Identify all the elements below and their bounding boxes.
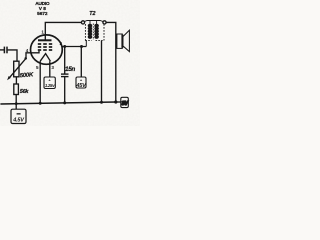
- svg-text:3V: 3V: [121, 101, 128, 107]
- transformer T2 terminal left: [81, 21, 84, 24]
- capacitor C1 input: [4, 47, 7, 54]
- node junction dot speaker bus: [114, 100, 117, 103]
- transformer T2 secondary winding: [95, 24, 99, 38]
- wire ground bus: [0, 102, 115, 104]
- wire input lead left: [0, 49, 4, 51]
- wire filament pin 5 to bus: [39, 61, 41, 103]
- transformer T2 bottom dashed lead: [85, 40, 91, 42]
- speaker LS1 cone: [123, 30, 129, 51]
- battery B1 1.25V box: [44, 77, 55, 89]
- battery B3 4.5V box: [11, 109, 26, 123]
- svg-text:15n: 15n: [65, 66, 75, 73]
- tube V1 5672 envelope: [31, 35, 63, 64]
- svg-text:56k: 56k: [20, 89, 30, 95]
- svg-text:1.25v: 1.25v: [45, 83, 55, 88]
- transformer T2 terminal right: [103, 21, 106, 24]
- node junction dot cap bus: [63, 101, 66, 104]
- svg-text:45V: 45V: [75, 83, 87, 89]
- wire grid internal lead: [31, 51, 39, 53]
- transformer T2 primary winding: [88, 24, 92, 38]
- title text AUDIO V8 5672: [35, 1, 50, 17]
- node junction dot secondary bus: [100, 101, 103, 104]
- svg-text:5: 5: [36, 65, 39, 70]
- node junction dot 56K bus: [15, 102, 18, 105]
- potentiometer R1 500K body: [14, 61, 19, 77]
- wire secondary bottom to bus: [101, 41, 103, 103]
- wire screen pin 2: [62, 46, 86, 48]
- svg-text:2: 2: [60, 41, 63, 46]
- wire cap to pot top: [8, 50, 17, 61]
- wire secondary top to speaker: [106, 22, 116, 102]
- transformer T2 top leads: [84, 21, 103, 22]
- svg-text:3: 3: [51, 65, 54, 70]
- potentiometer wiper arrow: [7, 57, 27, 80]
- tube grid dashes: [38, 44, 52, 50]
- svg-text:4.5V: 4.5V: [12, 117, 25, 123]
- transformer T2 core dashed center: [92, 24, 94, 41]
- capacitor C2 15n: [64, 47, 66, 74]
- tube plate: [38, 39, 52, 41]
- node junction dot battery: [80, 45, 83, 48]
- transformer T2 core dashed right: [103, 24, 105, 41]
- svg-text:5672: 5672: [37, 11, 48, 17]
- node junction dot cap: [63, 45, 66, 48]
- wire grid lead pin 4: [26, 53, 31, 59]
- wire plate lead to transformer: [45, 22, 81, 40]
- svg-text:1: 1: [41, 30, 44, 35]
- battery B4 3V box: [121, 97, 129, 107]
- battery B4 3V lead: [116, 101, 121, 103]
- speaker LS1 driver: [117, 34, 122, 48]
- svg-text:T2: T2: [89, 11, 95, 17]
- battery B3 4.5V lead: [15, 104, 17, 110]
- transformer T2 core dashed left: [84, 24, 86, 42]
- svg-text:500K: 500K: [20, 72, 35, 79]
- svg-text:4: 4: [26, 48, 29, 53]
- tube filament: [40, 54, 50, 62]
- node junction dot filament bus: [39, 102, 42, 105]
- wire filament pin 3 to battery: [49, 61, 51, 77]
- battery B2 45V box: [80, 47, 82, 78]
- wire pot bottom to 56K: [15, 77, 17, 84]
- wire 56K to bus: [15, 95, 17, 104]
- resistor R2 56K body: [14, 84, 19, 95]
